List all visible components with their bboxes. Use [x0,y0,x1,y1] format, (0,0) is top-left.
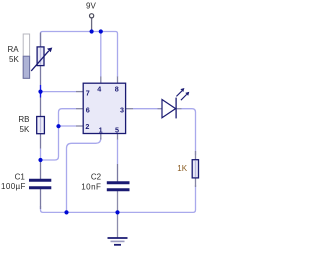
slider control for RA [23,34,29,78]
node blue terminal tip above junction [40,85,42,92]
svg-text:RB: RB [18,115,29,124]
resistor RB through wire [40,118,42,133]
battery terminal 9V circle [90,14,94,18]
resistor R3 1K body [192,160,198,178]
capacitor C1 plates [29,180,51,188]
wire junction to pin7 [41,91,77,93]
resistor RA through wire [40,48,42,65]
wire ground lead [117,212,119,237]
svg-text:6: 6 [86,106,90,115]
svg-text:RA: RA [8,45,20,54]
resistor RB top lead [40,98,42,118]
wire pin2 branch [59,125,77,127]
LED D1 arrow 2 [181,94,187,100]
node junction dot C2/ground on ground rail [115,210,119,214]
svg-text:5K: 5K [9,55,19,64]
node junction dot RA/RB/pin7 [38,90,42,94]
node junction dot RB/C1 [38,158,42,162]
svg-text:2: 2 [85,122,89,131]
wire pin4 to top rail [100,32,102,77]
wire pin5 to C2 [117,139,119,164]
ground symbol [108,237,128,239]
svg-text:7: 7 [86,88,90,97]
resistor RA wiper arrow [31,51,49,71]
capacitor C1 bottom lead [40,189,42,210]
capacitor C2 top lead [117,164,119,182]
resistor RB body [37,117,45,134]
pin 1 stub [100,133,102,139]
wire pin6 branch [59,109,77,126]
node junction dot pin2/pin6 [56,124,60,128]
wire 9V top rail with corners down to RA and pin8 [41,32,118,78]
pin 4 stub [100,77,102,84]
resistor RA (variable) body [37,47,44,66]
resistor RB bottom lead [40,133,42,149]
svg-text:4: 4 [97,84,101,93]
pin 7 stub [76,91,84,93]
capacitor C1 top lead [40,160,42,180]
svg-text:3: 3 [120,106,124,115]
wire node 2/6 down to RB/C1 node [41,126,59,160]
capacitor C2 plates [107,183,130,190]
node blue terminal tip below junction [40,92,42,98]
svg-text:100µF: 100µF [1,182,26,191]
svg-text:5: 5 [115,126,119,135]
node junction dot pin4 on top rail [99,29,103,33]
LED D1 arrow 1 [176,91,182,97]
wire pin3 to LED [133,108,161,110]
node junction dot 9V on top rail [90,29,94,33]
LED D1 cathode bar [175,98,177,119]
IC U1 555 body [83,83,125,133]
pin 2 stub [76,125,84,127]
pin 5 stub [117,133,119,139]
svg-text:1: 1 [99,126,103,135]
svg-text:10nF: 10nF [81,183,101,192]
resistor RA bottom lead [40,65,42,86]
wire LED to 1K [177,109,196,155]
svg-text:1K: 1K [177,164,187,173]
LED D1 triangle [162,100,176,118]
wire pin1 to ground rail [67,138,101,212]
svg-text:5K: 5K [20,125,30,134]
pin 3 stub [125,108,133,110]
resistor RA top lead [40,33,42,49]
capacitor C2 bottom lead [117,191,119,212]
wire ground rail [41,185,196,212]
LED stubs [158,108,182,110]
svg-text:8: 8 [115,84,119,93]
svg-text:C1: C1 [15,173,26,182]
wire RB lead to C1 node [40,149,42,161]
svg-text:9V: 9V [86,2,96,11]
node junction dot pin1 on ground rail [64,210,68,214]
resistor R3 through wire [195,161,197,177]
svg-text:C2: C2 [91,173,102,182]
resistor R3 stubs (1K) [195,151,197,187]
battery terminal 9V lead [91,18,93,32]
pin 8 stub [117,77,119,84]
pin 6 stub [76,108,84,110]
